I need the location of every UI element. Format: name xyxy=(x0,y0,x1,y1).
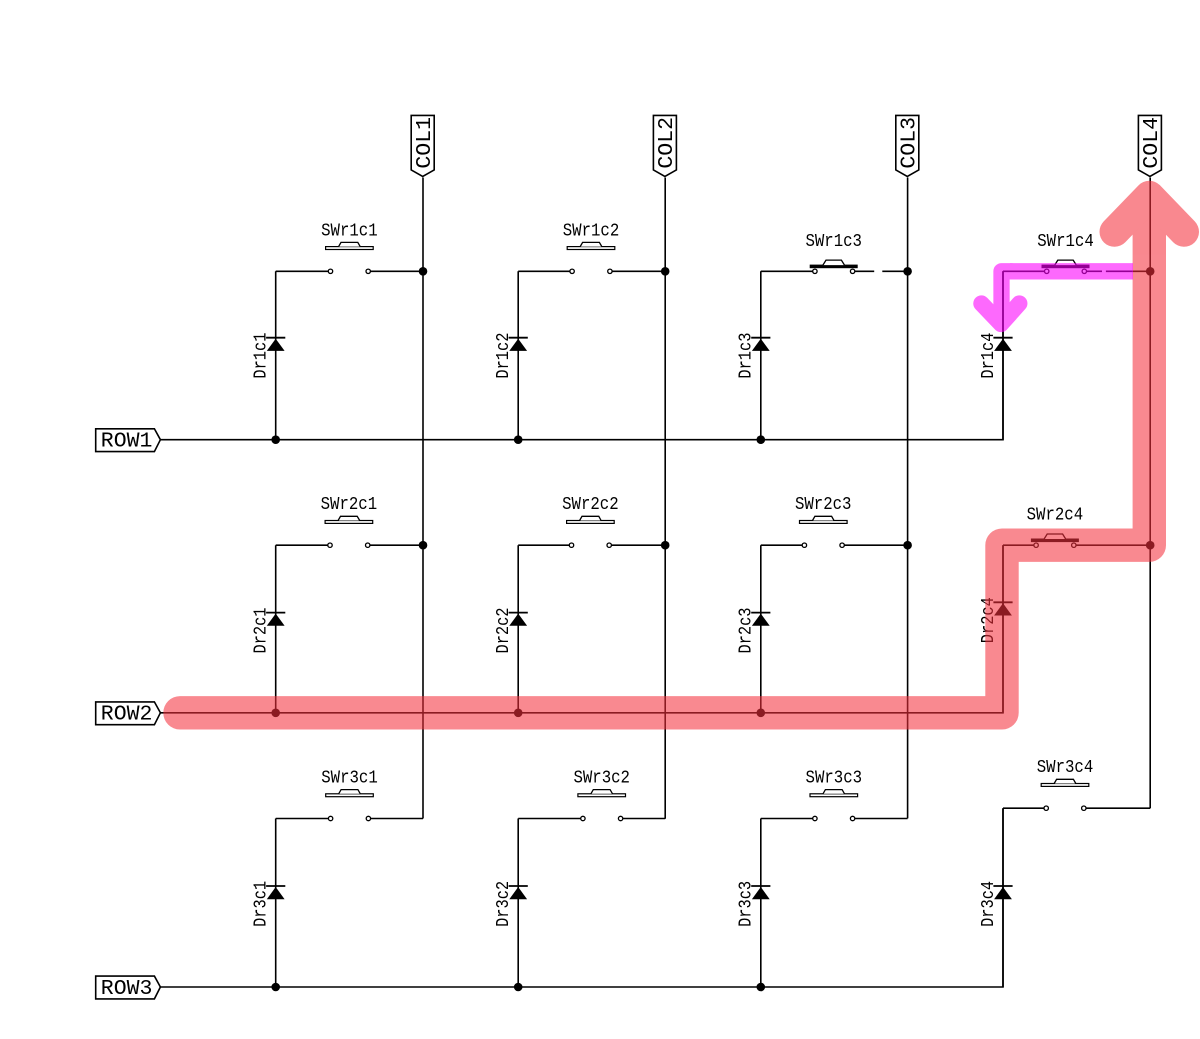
diode Dr1c4 xyxy=(977,271,1013,439)
switch SWr3c1 xyxy=(276,767,423,821)
red highlight current path ROW2 to COL4 xyxy=(180,196,1184,713)
junction ROW2/Dr2c3 xyxy=(757,709,766,718)
junction ROW2/Dr2c2 xyxy=(514,709,523,718)
hierarchical label COL1 xyxy=(411,115,437,176)
junction COL1/SWr1c1 xyxy=(419,267,428,276)
switch SWr2c4 xyxy=(1003,504,1150,548)
wire ROW2 horizontal xyxy=(160,545,1003,713)
hierarchical label COL3 xyxy=(896,115,922,176)
svg-text:Dr2c2: Dr2c2 xyxy=(492,608,514,654)
switch SWr2c2 xyxy=(518,493,665,547)
svg-text:COL4: COL4 xyxy=(1140,117,1164,169)
svg-text:Dr3c3: Dr3c3 xyxy=(735,881,757,927)
svg-text:Dr3c4: Dr3c4 xyxy=(977,881,999,927)
switch SWr3c4 xyxy=(1003,756,1150,810)
diode Dr2c4 xyxy=(977,545,1013,713)
svg-text:Dr2c1: Dr2c1 xyxy=(250,608,272,654)
diode Dr1c1 xyxy=(250,271,286,439)
diode Dr1c3 xyxy=(735,271,771,439)
svg-text:Dr1c4: Dr1c4 xyxy=(977,333,999,379)
switch SWr2c1 xyxy=(276,493,423,547)
svg-text:ROW1: ROW1 xyxy=(101,430,153,454)
junction COL1/SWr2c1 xyxy=(419,541,428,550)
hierarchical label ROW3 xyxy=(96,976,161,1001)
hierarchical label ROW1 xyxy=(96,429,161,454)
svg-text:SWr1c4: SWr1c4 xyxy=(1037,230,1094,252)
svg-text:SWr1c3: SWr1c3 xyxy=(805,230,862,252)
svg-text:SWr1c2: SWr1c2 xyxy=(563,219,620,241)
junction COL3/SWr1c3 xyxy=(903,267,912,276)
svg-text:SWr3c2: SWr3c2 xyxy=(573,767,630,789)
junction COL4/SWr2c4 xyxy=(1146,541,1155,550)
wire COL2 vertical xyxy=(664,178,666,819)
junction COL2/SWr2c2 xyxy=(661,541,670,550)
junction ROW1/Dr1c2 xyxy=(514,435,523,444)
diode Dr2c2 xyxy=(492,545,528,713)
junction COL3/SWr2c3 xyxy=(903,541,912,550)
wire COL4 vertical xyxy=(1149,178,1151,809)
svg-text:ROW2: ROW2 xyxy=(101,703,153,727)
svg-text:COL1: COL1 xyxy=(413,117,437,169)
junction ROW1/Dr1c3 xyxy=(757,435,766,444)
svg-text:SWr2c2: SWr2c2 xyxy=(562,493,619,515)
junction ROW3/Dr3c3 xyxy=(757,983,766,992)
svg-text:Dr2c3: Dr2c3 xyxy=(735,608,757,654)
hierarchical label COL4 xyxy=(1138,115,1164,176)
diode Dr3c4 xyxy=(977,808,1013,987)
wire COL3 vertical xyxy=(907,178,909,819)
wire ROW1 horizontal xyxy=(160,271,1003,439)
svg-text:SWr2c4: SWr2c4 xyxy=(1027,504,1084,526)
svg-text:SWr3c1: SWr3c1 xyxy=(321,767,378,789)
junction COL4/SWr1c4 xyxy=(1146,267,1155,276)
switch SWr2c3 xyxy=(761,493,908,547)
svg-text:SWr2c1: SWr2c1 xyxy=(321,493,378,515)
svg-text:Dr1c2: Dr1c2 xyxy=(492,333,514,379)
svg-text:SWr3c3: SWr3c3 xyxy=(806,767,863,789)
junction COL2/SWr1c2 xyxy=(661,267,670,276)
junction ROW3/Dr3c2 xyxy=(514,983,523,992)
junction ROW1/Dr1c1 xyxy=(271,435,280,444)
svg-text:Dr3c1: Dr3c1 xyxy=(250,881,272,927)
diode Dr3c1 xyxy=(250,819,286,988)
switch SWr1c3 xyxy=(761,230,908,274)
red arrowhead up at COL4 xyxy=(1115,196,1185,232)
diode Dr2c1 xyxy=(250,545,286,713)
switch SWr1c1 xyxy=(276,219,423,273)
svg-text:Dr1c3: Dr1c3 xyxy=(735,333,757,379)
diode Dr3c3 xyxy=(735,819,771,988)
switch SWr3c2 xyxy=(518,767,665,821)
magenta arrowhead down at Dr1c4 xyxy=(981,304,1019,325)
svg-text:COL3: COL3 xyxy=(897,117,921,169)
switch SWr3c3 xyxy=(761,767,908,821)
svg-text:Dr3c2: Dr3c2 xyxy=(492,881,514,927)
diode Dr3c2 xyxy=(492,819,528,988)
svg-text:SWr2c3: SWr2c3 xyxy=(795,493,852,515)
junction ROW3/Dr3c1 xyxy=(271,983,280,992)
junction ROW2/Dr2c1 xyxy=(271,709,280,718)
wire COL1 vertical xyxy=(422,178,424,819)
hierarchical label COL2 xyxy=(653,115,679,176)
svg-text:Dr1c1: Dr1c1 xyxy=(250,333,272,379)
hierarchical label ROW2 xyxy=(96,702,161,727)
svg-text:ROW3: ROW3 xyxy=(101,977,153,1001)
switch SWr1c4 xyxy=(1003,230,1150,274)
wire ROW3 horizontal xyxy=(160,808,1003,987)
diode Dr2c3 xyxy=(735,545,771,713)
svg-text:SWr1c1: SWr1c1 xyxy=(321,219,378,241)
switch SWr1c2 xyxy=(518,219,665,273)
svg-text:SWr3c4: SWr3c4 xyxy=(1037,756,1094,778)
svg-text:COL2: COL2 xyxy=(655,117,679,169)
magenta highlight blocked path at SWr1c4 xyxy=(981,271,1133,324)
diode Dr1c2 xyxy=(492,271,528,439)
